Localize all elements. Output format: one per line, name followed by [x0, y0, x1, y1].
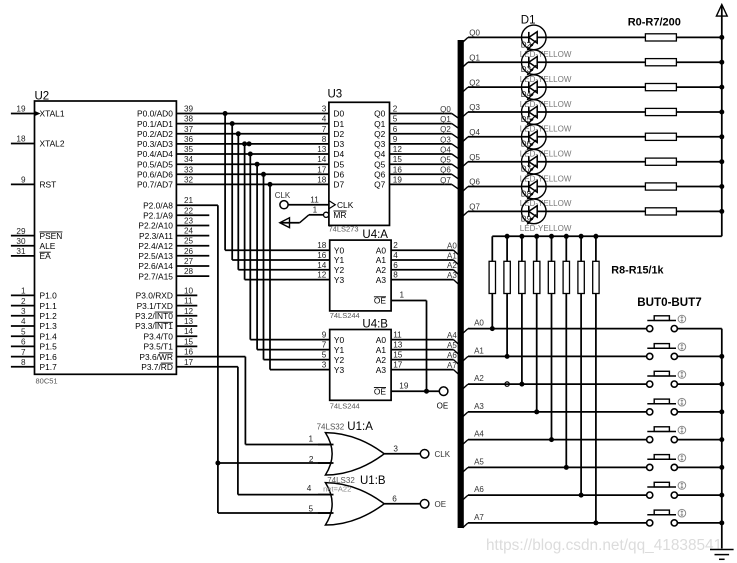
svg-text:CLK: CLK	[275, 191, 291, 200]
svg-text:15: 15	[393, 351, 403, 360]
svg-text:Q2: Q2	[469, 78, 480, 87]
svg-text:30: 30	[16, 237, 26, 246]
svg-text:U1:B: U1:B	[360, 475, 386, 487]
resistor R8 1k	[489, 236, 495, 328]
resistor R14 1k	[578, 236, 584, 495]
svg-text:D9: D9	[521, 214, 532, 223]
svg-text:14: 14	[317, 261, 327, 270]
bus entry Q0	[452, 114, 459, 119]
svg-text:A1: A1	[376, 255, 387, 265]
resistor R7 200	[546, 208, 722, 215]
bus exit A3 to button	[463, 402, 485, 417]
bus exit Q5 to LED	[463, 153, 481, 167]
bus entry A0	[454, 250, 459, 255]
U2 pin 2 P1.1	[11, 297, 57, 311]
U3 pin 16 Q6 wire to bus	[374, 165, 452, 179]
svg-text:14: 14	[317, 155, 327, 164]
svg-text:27: 27	[184, 257, 194, 266]
svg-text:39: 39	[184, 105, 194, 114]
svg-text:13: 13	[184, 317, 194, 326]
LED D9 LED-YELLOW	[520, 199, 572, 233]
svg-text:18: 18	[317, 175, 327, 184]
U2 pin 14 P3.4/T0	[144, 327, 198, 341]
svg-text:12: 12	[184, 307, 194, 316]
wire P0.1 tap to U4:A Y1	[230, 121, 330, 260]
LED D3 LED-YELLOW	[520, 50, 572, 84]
bus exit Q6 to LED	[463, 178, 481, 192]
U4:B pin 3 Y3	[322, 361, 345, 375]
button BUT7	[647, 509, 686, 526]
svg-text:19: 19	[16, 105, 26, 114]
svg-text:Q4: Q4	[374, 149, 386, 159]
wire P0.6 tap to U4:B Y2	[261, 172, 330, 360]
svg-text:5: 5	[322, 351, 327, 360]
svg-text:P0.7/AD7: P0.7/AD7	[137, 180, 173, 190]
U2 pin 35 P0.4/AD4 wire to U3	[137, 145, 329, 159]
U2 pin 39 P0.0/AD0 wire to U3	[137, 105, 329, 119]
svg-text:U1:A: U1:A	[347, 421, 373, 433]
junction R5 rail	[719, 159, 724, 164]
svg-text:6: 6	[21, 338, 26, 347]
svg-text:D8: D8	[521, 189, 532, 198]
bus exit A0 to button	[463, 319, 485, 334]
svg-text:P3.5/T1: P3.5/T1	[144, 342, 174, 352]
U2 XTAL1 clock arrow	[35, 111, 41, 116]
U4:A pin 2 A0 wire to bus	[376, 241, 458, 255]
svg-text:Q4: Q4	[440, 145, 451, 154]
svg-text:33: 33	[184, 165, 194, 174]
svg-text:17: 17	[317, 165, 327, 174]
svg-text:A2: A2	[376, 265, 387, 275]
button BUT5	[647, 454, 686, 471]
svg-text:Y1: Y1	[334, 345, 345, 355]
button BUT2	[647, 371, 686, 388]
U3 pin 2 Q0 wire to bus	[374, 105, 452, 119]
U3 pin 18 D7	[317, 175, 344, 189]
terminal CLK at U1:A output	[420, 450, 450, 460]
svg-text:12: 12	[317, 271, 327, 280]
svg-text:Q0: Q0	[440, 105, 451, 114]
svg-text:A6: A6	[447, 351, 457, 360]
bus exit A5 to button	[463, 457, 485, 472]
svg-text:12: 12	[393, 145, 403, 154]
wire VCC rail	[721, 6, 723, 236]
wire P0.2 tap to U4:A Y2	[236, 131, 330, 269]
svg-text:A1: A1	[474, 346, 484, 355]
svg-text:74LS244: 74LS244	[330, 402, 360, 411]
U2 pin 23 P2.2/A10	[138, 217, 209, 231]
svg-text:Q2: Q2	[440, 125, 451, 134]
svg-text:23: 23	[184, 217, 194, 226]
resistor R6 200	[546, 183, 722, 190]
wire A7 row	[468, 522, 647, 524]
svg-text:4: 4	[322, 115, 327, 124]
U3 pin 3 D0	[322, 105, 345, 119]
resistor R15 1k	[593, 236, 599, 523]
wire A2 row	[468, 383, 647, 385]
svg-text:Q5: Q5	[374, 159, 386, 169]
junction R12 to A4	[549, 437, 554, 442]
bus entry A3	[454, 280, 459, 285]
U2 pin 11 P3.1/TXD	[137, 297, 198, 311]
U4:A pin 8 A3 wire to bus	[376, 271, 458, 285]
svg-text:3: 3	[322, 105, 327, 114]
svg-text:19: 19	[399, 381, 409, 390]
svg-text:P1.7: P1.7	[40, 362, 58, 372]
bus exit Q4 to LED	[463, 128, 481, 142]
resistor R9 1k	[504, 236, 510, 356]
bus exit A7 to button	[463, 513, 485, 528]
resistor R1 200	[546, 59, 722, 66]
svg-text:P1.0: P1.0	[40, 291, 58, 301]
svg-text:1: 1	[313, 205, 318, 214]
U4:A pin 12 Y3	[317, 271, 344, 285]
junction rail col5	[564, 234, 569, 239]
bus exit Q0 to LED	[463, 29, 481, 43]
svg-text:A0: A0	[376, 245, 387, 255]
svg-text:A3: A3	[447, 271, 457, 280]
U2 pin 24 P2.3/A11	[139, 227, 209, 241]
wire A3 row	[468, 411, 647, 413]
U3 pin 6 Q2 wire to bus	[374, 125, 452, 139]
svg-text:4: 4	[307, 484, 312, 493]
svg-text:Q5: Q5	[440, 156, 451, 165]
LED D8 LED-YELLOW	[520, 174, 572, 208]
svg-text:38: 38	[184, 115, 194, 124]
wire A6 row	[468, 494, 647, 496]
U2 pin 12 P3.2/INT0	[135, 307, 197, 321]
svg-text:74LS32: 74LS32	[317, 422, 345, 431]
LED D3 wire left	[468, 61, 522, 63]
resistor R4 200	[546, 133, 722, 140]
U4:A pin 1 OE wire down to OE net	[374, 290, 427, 391]
junction R0 rail	[719, 35, 724, 40]
svg-text:13: 13	[317, 145, 327, 154]
svg-text:A0: A0	[447, 242, 457, 251]
wire RD from P3.7 down to U1:B pin4	[238, 367, 334, 495]
svg-text:P0.2/AD2: P0.2/AD2	[137, 129, 173, 139]
svg-text:A5: A5	[447, 341, 457, 350]
wire A0 row	[468, 328, 647, 330]
svg-text:XTAL2: XTAL2	[40, 139, 65, 149]
svg-text:A3: A3	[474, 402, 484, 411]
svg-text:D2: D2	[333, 129, 344, 139]
LED D4 wire left	[468, 86, 522, 88]
resistor R2 200	[546, 84, 722, 91]
terminal OE at U1:B output	[420, 500, 446, 510]
wire A8 from P2.0 down to U1 inputs	[215, 205, 333, 513]
IC U4:B 74LS244 body	[330, 330, 391, 401]
svg-text:Q3: Q3	[440, 135, 451, 144]
ground	[710, 550, 734, 560]
wire P0.5 tap to U4:B Y1	[255, 162, 330, 350]
svg-text:6: 6	[393, 261, 398, 270]
LED D5 LED-YELLOW	[520, 100, 572, 134]
svg-text:A3: A3	[376, 275, 387, 285]
U3 pin 9 Q3 wire to bus	[374, 135, 452, 149]
bus entry Q3	[452, 144, 459, 149]
U2 pin 30 ALE	[11, 237, 56, 251]
U2 pin 36 P0.3/AD3 wire to U3	[137, 135, 329, 149]
svg-text:Q3: Q3	[374, 139, 386, 149]
LED D9 wire left	[468, 210, 522, 212]
svg-text:P2.6/A14: P2.6/A14	[138, 261, 173, 271]
wire P0.3 tap to U4:A Y3	[242, 141, 330, 279]
U2 pin 22 P2.1/A9	[143, 206, 209, 220]
U2 pin 8 P1.7	[11, 358, 57, 372]
svg-text:D0: D0	[333, 109, 344, 119]
svg-text:Q5: Q5	[469, 153, 480, 162]
svg-text:A4: A4	[474, 430, 484, 439]
svg-text:A1: A1	[447, 251, 457, 260]
svg-text:25: 25	[184, 237, 194, 246]
junction rail col4	[549, 234, 554, 239]
svg-text:4: 4	[393, 251, 398, 260]
U2 pin 1 P1.0	[11, 287, 57, 301]
U2 pin 13 P3.3/INT1	[135, 317, 197, 331]
bus entry Q5	[452, 164, 459, 169]
svg-text:P0.0/AD0: P0.0/AD0	[137, 109, 173, 119]
svg-text:21: 21	[184, 196, 194, 205]
U4:A pin 16 Y1	[317, 251, 344, 265]
U4:B pin 13 A1 wire to bus	[376, 341, 458, 355]
svg-text:Y2: Y2	[334, 265, 345, 275]
wire BUT2 to rail	[677, 383, 721, 385]
junction rail col2	[519, 234, 524, 239]
svg-text:7: 7	[21, 348, 26, 357]
svg-text:11: 11	[184, 297, 193, 306]
svg-text:Y0: Y0	[334, 335, 345, 345]
wire A4 row	[468, 439, 647, 441]
bus exit A1 to button	[463, 346, 485, 361]
svg-text:D4: D4	[333, 149, 344, 159]
svg-text:CLK: CLK	[435, 450, 451, 459]
svg-text:P2.5/A13: P2.5/A13	[138, 251, 173, 261]
svg-text:16: 16	[184, 348, 194, 357]
IC U3 74LS273 body	[329, 102, 390, 225]
svg-text:P2.1/A9: P2.1/A9	[143, 211, 173, 221]
svg-text:D7: D7	[521, 165, 532, 174]
svg-text:A0: A0	[474, 319, 484, 328]
svg-text:17: 17	[393, 361, 403, 370]
resistor R13 1k	[563, 236, 569, 467]
U2 pin 33 P0.6/AD6 wire to U3	[137, 165, 329, 179]
junction R8 to A0	[490, 326, 495, 331]
svg-text:P0.5/AD5: P0.5/AD5	[137, 159, 173, 169]
svg-text:15: 15	[393, 155, 403, 164]
resistor R0 200	[546, 34, 722, 41]
svg-text:XTAL1: XTAL1	[40, 109, 65, 119]
svg-text:5: 5	[393, 115, 398, 124]
junction rail A7	[719, 520, 724, 525]
bus exit A2 to button	[463, 374, 485, 389]
svg-text:Q0: Q0	[374, 109, 386, 119]
resistor R3 200	[546, 108, 722, 115]
svg-text:34: 34	[184, 155, 194, 164]
svg-text:U3: U3	[328, 89, 343, 101]
svg-text:P1.1: P1.1	[40, 301, 58, 311]
U2 pin 6 P1.5	[11, 338, 57, 352]
LED D7 LED-YELLOW	[520, 149, 572, 183]
svg-text:P1.4: P1.4	[40, 331, 58, 341]
U3 pin 8 D3	[322, 135, 345, 149]
svg-text:2: 2	[309, 455, 314, 464]
junction rail A5	[719, 465, 724, 470]
U2 pin 37 P0.2/AD2 wire to U3	[137, 125, 329, 139]
svg-text:R8-R15/1k: R8-R15/1k	[611, 265, 664, 277]
svg-text:A7: A7	[474, 513, 484, 522]
or-gate U1:A 74LS32	[308, 421, 420, 475]
svg-text:D1: D1	[333, 119, 344, 129]
svg-text:24: 24	[184, 227, 194, 236]
bus exit Q3 to LED	[463, 103, 481, 117]
wire WR from P3.6 down to U1:A pin1	[245, 357, 333, 445]
svg-text:1: 1	[400, 290, 405, 299]
bus entry A1	[454, 260, 459, 265]
svg-text:29: 29	[16, 227, 26, 236]
svg-text:1: 1	[21, 287, 26, 296]
bus exit A4 to button	[463, 430, 485, 445]
svg-text:37: 37	[184, 125, 194, 134]
bus entry A6	[454, 360, 459, 365]
svg-text:A0: A0	[376, 335, 387, 345]
wire P0.7 tap to U4:B Y3	[268, 182, 330, 370]
junction R14 to A6	[579, 493, 584, 498]
svg-text:Q0: Q0	[469, 29, 480, 38]
svg-text:LED-YELLOW: LED-YELLOW	[520, 224, 572, 233]
svg-text:P2.0/A8: P2.0/A8	[143, 200, 173, 210]
junction rail col3	[534, 234, 539, 239]
svg-text:U2: U2	[35, 91, 50, 103]
bus entry A4	[454, 340, 459, 345]
U2 pin 16 P3.6/WR	[139, 348, 245, 362]
U3 pin 7 D2	[322, 125, 345, 139]
junction R7 rail	[719, 209, 724, 214]
svg-text:Q1: Q1	[469, 54, 480, 63]
svg-text:9: 9	[393, 135, 398, 144]
svg-text:16: 16	[317, 251, 327, 260]
svg-text:80C51: 80C51	[36, 377, 58, 386]
U4:B pin 7 Y1	[322, 341, 345, 355]
junction rail A4	[719, 437, 724, 442]
svg-text:3: 3	[21, 307, 26, 316]
svg-text:2: 2	[393, 241, 398, 250]
U3 pin 17 D6	[317, 165, 344, 179]
svg-text:U4:A: U4:A	[362, 229, 388, 241]
bus entry A2	[454, 270, 459, 275]
bus entry A7	[454, 370, 459, 375]
svg-text:Q4: Q4	[469, 128, 480, 137]
junction R2 rail	[719, 85, 724, 90]
svg-text:5: 5	[308, 505, 313, 514]
U2 pin 17 P3.7/RD	[141, 358, 238, 372]
bus entry A5	[454, 350, 459, 355]
svg-text:8: 8	[21, 358, 26, 367]
svg-text:Q7: Q7	[440, 176, 451, 185]
U2 pin 5 P1.4	[11, 327, 57, 341]
U4:B pin 9 Y0	[322, 331, 345, 345]
U3 pin 14 D5	[317, 155, 344, 169]
button BUT6	[647, 482, 686, 499]
svg-text:D5: D5	[521, 115, 532, 124]
U4:A pin 18 Y0	[317, 241, 344, 255]
junction R1 rail	[719, 60, 724, 65]
svg-text:OE: OE	[437, 402, 449, 411]
U2 pin 7 P1.6	[11, 348, 57, 362]
wire P0.0 tap to U4:A Y0	[223, 111, 330, 250]
svg-text:7: 7	[322, 341, 327, 350]
svg-text:P0.3/AD3: P0.3/AD3	[137, 139, 173, 149]
bus exit Q1 to LED	[463, 54, 481, 68]
svg-text:A1: A1	[376, 345, 387, 355]
svg-text:10: 10	[184, 286, 194, 295]
svg-text:22: 22	[184, 206, 194, 215]
svg-text:19: 19	[393, 175, 403, 184]
svg-text:5: 5	[21, 327, 26, 336]
svg-text:Q7: Q7	[469, 203, 480, 212]
svg-text:D6: D6	[333, 170, 344, 180]
svg-text:P1.6: P1.6	[40, 352, 58, 362]
LED D8 wire left	[468, 186, 522, 188]
svg-text:36: 36	[184, 135, 194, 144]
junction rail A3	[719, 409, 724, 414]
LED D6 wire left	[468, 136, 522, 138]
bus vertical	[458, 40, 464, 528]
U2 pin 27 P2.6/A14	[138, 257, 209, 271]
wire resistor top rail	[492, 235, 722, 237]
svg-text:2: 2	[393, 105, 398, 114]
junction rail A1	[719, 354, 724, 359]
svg-text:A2: A2	[447, 261, 457, 270]
svg-text:Q6: Q6	[440, 166, 451, 175]
resistor R12 1k	[548, 236, 554, 439]
svg-text:74LS273: 74LS273	[329, 225, 359, 234]
svg-text:Y3: Y3	[334, 365, 345, 375]
LED D5 wire left	[468, 111, 522, 113]
bus exit A6 to button	[463, 485, 485, 500]
svg-text:Y2: Y2	[334, 355, 345, 365]
svg-text:17: 17	[184, 358, 194, 367]
svg-text:U4:B: U4:B	[362, 318, 388, 330]
wire BUT7 to rail	[677, 522, 721, 524]
crossing blob artifact	[505, 382, 509, 386]
U2 pin 10 P3.0/RXD	[136, 286, 198, 300]
svg-text:Q6: Q6	[469, 178, 480, 187]
bus entry Q1	[452, 124, 459, 129]
svg-text:A3: A3	[376, 365, 387, 375]
svg-text:D4: D4	[521, 90, 532, 99]
wire A5 row	[468, 466, 647, 468]
U2 pin 28 P2.7/A15	[138, 267, 209, 281]
svg-text:Q1: Q1	[374, 119, 386, 129]
junction R10 to A2	[519, 382, 524, 387]
svg-text:CLK: CLK	[337, 200, 354, 210]
junction rail col1	[505, 234, 510, 239]
svg-text:13: 13	[393, 341, 403, 350]
svg-text:R0-R7/200: R0-R7/200	[628, 17, 681, 29]
U2 pin 19 XTAL1	[11, 105, 65, 119]
resistor R5 200	[546, 158, 722, 165]
svg-text:net=A22: net=A22	[323, 484, 351, 493]
resistor R10 1k	[519, 236, 525, 384]
svg-text:A4: A4	[447, 331, 457, 340]
junction R11 to A3	[534, 409, 539, 414]
svg-text:9: 9	[322, 331, 327, 340]
svg-text:Q7: Q7	[374, 180, 386, 190]
U2 pin 32 P0.7/AD7 wire to U3	[137, 175, 329, 189]
wire P0.4 tap to U4:B Y0	[248, 152, 330, 340]
svg-text:P1.2: P1.2	[40, 311, 58, 321]
